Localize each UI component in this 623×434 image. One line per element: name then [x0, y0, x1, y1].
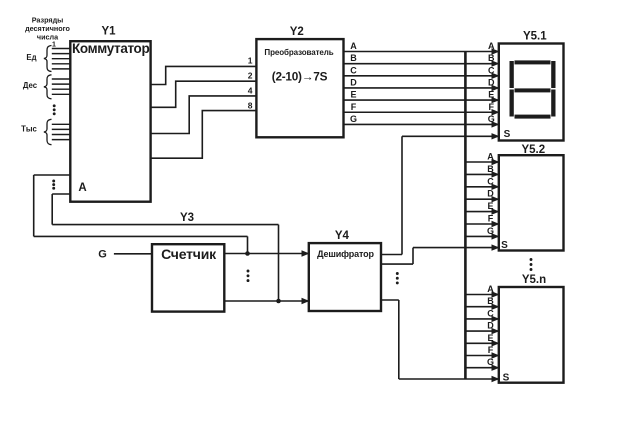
- wire: feedback net 1 tap down to counter top output: [247, 236, 249, 253]
- wire: bus stub C to Y5.n: [465, 318, 498, 320]
- svg-text:F: F: [489, 102, 495, 112]
- block Y1 (Коммутатор) border: [70, 41, 150, 202]
- wire: G input into counter Y3: [114, 253, 152, 255]
- input pins group Ед (units digit wires into Y1): [52, 49, 71, 69]
- wire: segment E from Y2 to Y5.1: [344, 99, 499, 101]
- wire: bus stub G to Y5.2: [465, 235, 498, 237]
- arrow into Y5.2 pin S: [492, 244, 500, 250]
- wire: bus stub F to Y5.n: [465, 355, 498, 357]
- wire: segment A from Y2 to Y5.1: [344, 51, 499, 53]
- block Y3 (Счетчик) border: [152, 244, 224, 311]
- svg-text:G: G: [487, 357, 494, 367]
- svg-text:Y5.2: Y5.2: [521, 144, 545, 156]
- wire: counter top output to Y4: [224, 253, 308, 255]
- svg-text:C: C: [350, 65, 357, 75]
- svg-text:C: C: [488, 65, 495, 75]
- wire: segment G from Y2 to Y5.1: [344, 123, 499, 125]
- arrow into Y5.2 pin E: [492, 208, 500, 214]
- wire: feedback net 1 vertical at x=33.7: [33, 175, 35, 236]
- wire: bus stub C to Y5.2: [465, 186, 498, 188]
- svg-text:8: 8: [248, 100, 253, 110]
- wire: S line into Y5.1: [402, 135, 499, 137]
- svg-text:Ед: Ед: [26, 53, 36, 62]
- svg-text:Коммутатор: Коммутатор: [72, 41, 149, 56]
- wire: S line into Y5.n: [399, 378, 499, 380]
- wire: segment D from Y2 to Y5.1: [344, 87, 499, 89]
- wire: Y1 output to Y2 input bit 1: [151, 66, 257, 84]
- svg-text:A: A: [487, 152, 494, 162]
- arrow into Y5.n pin B: [492, 304, 500, 310]
- svg-text:А: А: [78, 182, 86, 194]
- wire: bus stub A to Y5.2: [465, 161, 498, 163]
- svg-text:G: G: [488, 114, 495, 124]
- wire: feedback net 2 tap down to counter bottom output: [278, 225, 280, 301]
- wire: counter bottom output to Y4: [224, 300, 308, 302]
- arrow into Y5.1 pin D: [492, 85, 500, 91]
- 7-segment digit: segment e (lower-left bar): [510, 90, 514, 117]
- 7-segment digit: segment a (top bar): [515, 60, 551, 64]
- svg-text:4: 4: [248, 85, 253, 95]
- 7-segment digit: segment g (middle bar): [515, 88, 551, 92]
- svg-text:Y1: Y1: [101, 26, 116, 38]
- svg-text:A: A: [488, 41, 495, 51]
- svg-text:1: 1: [52, 41, 56, 48]
- svg-text:B: B: [350, 53, 357, 63]
- wire: bus stub F to Y5.2: [465, 223, 498, 225]
- wire: Y4 output 3 stub: [381, 299, 399, 301]
- svg-text:числа: числа: [37, 33, 59, 42]
- ellipsis between Y5.2 and Y5.n: [530, 258, 533, 271]
- arrow into Y5.n pin E: [492, 340, 500, 346]
- arrow into Y5.2 pin D: [492, 196, 500, 202]
- annotation: Разряды десятичного числа (top-left caption): [25, 16, 70, 42]
- wire: bus stub D to Y5.n: [465, 330, 498, 332]
- svg-text:Y5.1: Y5.1: [523, 30, 547, 42]
- arrow into Y5.n pin C: [492, 316, 500, 322]
- svg-text:C: C: [487, 308, 494, 318]
- input pins group Тыс (thousands digit wires into Y1): [52, 124, 71, 139]
- wire: Y4 output 3 vertical down at x=398.8: [398, 300, 400, 379]
- block Y2 (Преобразователь) border: [256, 39, 343, 137]
- 7-segment digit: segment f (upper-left bar): [510, 61, 514, 88]
- 7-segment digit: segment d (bottom bar): [515, 115, 551, 119]
- svg-text:Y2: Y2: [290, 26, 304, 38]
- wire: bus stub D to Y5.2: [465, 198, 498, 200]
- arrow into Y5.2 pin A: [492, 159, 500, 165]
- svg-text:Преобразователь: Преобразователь: [264, 48, 333, 57]
- wire: bus stub E to Y5.n: [465, 342, 498, 344]
- svg-text:Разряды: Разряды: [32, 16, 64, 25]
- arrow into Y5.1 pin C: [492, 73, 500, 79]
- svg-text:F: F: [488, 345, 494, 355]
- ellipsis left of Y1 address pins: [52, 180, 55, 190]
- wire: segment F from Y2 to Y5.1: [344, 111, 499, 113]
- block Y5.n border: [499, 287, 564, 383]
- svg-text:Y4: Y4: [335, 230, 350, 242]
- wire: Y4 output 2 vertical up at x=413: [412, 248, 414, 265]
- junction on counter bottom output wire: [276, 299, 281, 304]
- arrow into Y5.n pin G: [492, 365, 500, 371]
- svg-text:1: 1: [248, 55, 253, 65]
- arrow into Y5.1 pin S: [492, 133, 500, 139]
- wire: feedback net 2 horizontal y=224.6 (Y3 output to Y1 address): [52, 224, 278, 226]
- svg-text:S: S: [503, 373, 510, 384]
- wire: feedback net 2 vertical at x=52.2: [51, 194, 53, 225]
- arrow into Y5.1 pin A: [492, 48, 500, 54]
- brace for input group Ед: [44, 46, 52, 72]
- svg-text:Счетчик: Счетчик: [161, 246, 217, 262]
- bus vertical (segment lines down to Y5.2 and Y5.n): [464, 52, 467, 380]
- svg-text:D: D: [350, 77, 357, 87]
- svg-text:E: E: [350, 90, 356, 100]
- arrow into Y5.2 pin C: [492, 184, 500, 190]
- wire: segment B from Y2 to Y5.1: [344, 63, 499, 65]
- wire: Y4 output 2 stub: [381, 263, 413, 265]
- wire: feedback net 1 horizontal y=236.4 (Y3 output to Y1 address): [34, 235, 248, 237]
- 7-segment digit: segment b (upper-right bar): [551, 61, 555, 88]
- ellipsis between Дес and Тыс input groups: [53, 104, 56, 115]
- svg-text:Y5.n: Y5.n: [522, 274, 546, 286]
- arrow into Y5.n pin D: [492, 328, 500, 334]
- wire: bus stub B to Y5.n: [465, 306, 498, 308]
- wire: bus stub E to Y5.2: [465, 211, 498, 213]
- arrow into Y5.2 pin F: [492, 221, 500, 227]
- svg-text:G: G: [487, 226, 494, 236]
- svg-text:2: 2: [248, 71, 253, 81]
- svg-text:B: B: [488, 53, 495, 63]
- wire: bus stub G to Y5.n: [465, 367, 498, 369]
- 7-segment digit: segment c (lower-right bar): [551, 90, 555, 117]
- input pins group Дес (tens digit wires into Y1): [52, 79, 71, 94]
- wire: S line into Y5.2: [413, 247, 499, 249]
- svg-text:Тыс: Тыс: [21, 125, 37, 134]
- ellipsis between Y4 output wires: [396, 272, 399, 284]
- wire: Y4 output 1 stub: [381, 254, 402, 256]
- svg-text:Дешифратор: Дешифратор: [317, 249, 374, 259]
- brace for input group Дес: [44, 75, 52, 99]
- svg-text:E: E: [488, 90, 494, 100]
- ellipsis between counter output wires: [247, 270, 250, 283]
- arrow into Y5.2 pin B: [492, 171, 500, 177]
- wire: bus stub B to Y5.2: [465, 173, 498, 175]
- svg-text:G: G: [350, 114, 357, 124]
- svg-text:Y3: Y3: [180, 212, 194, 224]
- svg-text:F: F: [351, 102, 357, 112]
- brace for input group Тыс: [44, 119, 52, 144]
- block Y5.1 (7-segment indicator) border: [499, 44, 564, 141]
- svg-text:B: B: [487, 164, 494, 174]
- arrow into Y5.1 pin B: [492, 60, 500, 66]
- svg-text:A: A: [350, 41, 357, 51]
- svg-text:F: F: [488, 214, 494, 224]
- wire: Y1 output to Y2 input bit 4: [151, 96, 257, 134]
- arrow into Y5.n pin A: [492, 291, 500, 297]
- arrow into Y5.2 pin G: [492, 233, 500, 239]
- wire: segment C from Y2 to Y5.1: [344, 75, 499, 77]
- arrow into Y4 bottom input: [302, 298, 310, 304]
- svg-text:Дес: Дес: [23, 81, 38, 90]
- arrow into Y4 top input: [302, 250, 310, 256]
- svg-text:(2-10)→7S: (2-10)→7S: [272, 70, 328, 84]
- svg-text:S: S: [504, 129, 511, 140]
- svg-text:B: B: [487, 296, 494, 306]
- wire: Y1 address pin 2 stub: [52, 193, 70, 195]
- wire: Y1 output to Y2 input bit 2: [151, 81, 257, 107]
- svg-text:D: D: [488, 77, 495, 87]
- wire: Y1 address pin 1 stub: [34, 174, 71, 176]
- svg-text:G: G: [98, 249, 107, 261]
- arrow into Y5.n pin F: [492, 352, 500, 358]
- svg-text:C: C: [487, 176, 494, 186]
- svg-text:D: D: [487, 189, 494, 199]
- wire: Y4 output 1 vertical up at x=402: [401, 136, 403, 254]
- block Y5.2 border: [499, 155, 564, 250]
- wire: bus stub A to Y5.n: [465, 294, 498, 296]
- svg-text:E: E: [487, 333, 493, 343]
- arrow into Y5.n pin S: [492, 376, 500, 382]
- arrow into Y5.1 pin G: [492, 121, 500, 127]
- svg-text:D: D: [487, 321, 494, 331]
- arrow into Y5.1 pin F: [492, 109, 500, 116]
- arrow into Y5.1 pin E: [492, 97, 500, 103]
- block Y4 (Дешифратор) border: [309, 243, 381, 311]
- wire: Y1 output to Y2 input bit 8: [151, 111, 257, 159]
- svg-text:S: S: [501, 240, 508, 251]
- junction on counter top output wire: [245, 251, 250, 256]
- svg-text:E: E: [487, 201, 493, 211]
- svg-text:A: A: [487, 284, 494, 294]
